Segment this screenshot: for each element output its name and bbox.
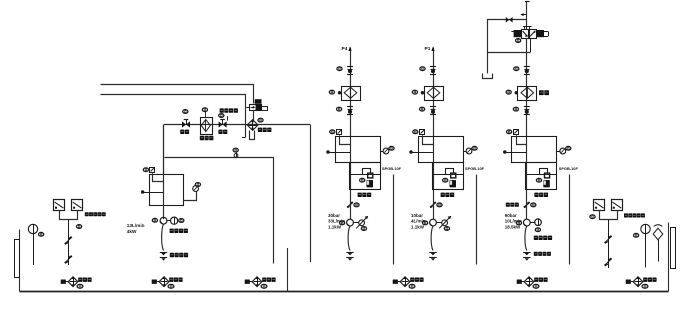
tank right wall: [668, 223, 670, 292]
suction port label box: [393, 280, 398, 284]
pressure gauge: [560, 148, 566, 154]
thermometer right: [641, 224, 650, 233]
cooler: [247, 120, 258, 131]
check valve upper: [430, 66, 436, 68]
plugged test port: [410, 151, 413, 154]
check valve upper tag: [337, 67, 342, 71]
ball valve V1: [182, 121, 186, 127]
wire: [530, 222, 535, 224]
pilot relief valve: [446, 169, 454, 175]
hatched plug port S1: [143, 168, 148, 172]
port number tag: [409, 284, 415, 288]
svg-text:30bar: 30bar: [328, 213, 340, 218]
inlet arrow mark: [521, 14, 527, 16]
orifice tag: [233, 148, 238, 152]
gauge tag: [472, 146, 477, 150]
suction hose text: [170, 253, 174, 257]
port number tag: [261, 284, 267, 288]
circulation pump: [160, 217, 167, 224]
pump unit 1 group: [327, 46, 402, 264]
svg-text:SPGB-10F: SPGB-10F: [559, 166, 579, 171]
svg-text:SPGB-10F: SPGB-10F: [465, 166, 485, 171]
svg-text:1.1kW: 1.1kW: [411, 224, 425, 229]
wire return stub foot: [242, 137, 245, 139]
wire drain to tank: [393, 175, 395, 265]
gauge tag: [566, 146, 571, 150]
pump unit 2 group: [410, 46, 485, 264]
pressure gauge: [466, 148, 472, 154]
port number tag: [533, 284, 539, 288]
level gauge right: [671, 228, 676, 269]
circulation pump group text: [170, 229, 174, 233]
manifold block lower: [433, 163, 464, 190]
motor tag: [361, 227, 366, 231]
level switch right B: [612, 200, 623, 211]
level switch tag right: [590, 215, 595, 219]
port diamond symbol: [68, 277, 78, 287]
wire level switch legs: [60, 211, 78, 220]
svg-text:90bar: 90bar: [505, 213, 517, 218]
relief valve tag: [536, 178, 541, 182]
manifold block upper: [512, 137, 557, 163]
port name text: [643, 278, 647, 282]
wire unit riser: [526, 66, 528, 219]
manifold block B1: [150, 175, 184, 206]
suction hose break: [523, 252, 530, 254]
valve V2 name text: [218, 130, 222, 134]
port name text: [262, 278, 266, 282]
wire main loop line: [164, 124, 310, 126]
check valve lower: [430, 106, 436, 108]
relief name text: [534, 193, 538, 197]
thermometer left tag: [39, 232, 44, 236]
high pressure filter: [342, 87, 361, 101]
svg-text:18.5kW: 18.5kW: [505, 224, 521, 229]
wire valve T-port: [530, 38, 532, 52]
wire: [167, 220, 171, 222]
thermometer left: [28, 224, 37, 233]
level switch right A: [594, 200, 605, 211]
wire lower tee line: [165, 158, 274, 264]
port diamond symbol: [633, 277, 643, 287]
check valve lower tag: [337, 107, 342, 111]
hatched plug port: [330, 130, 335, 134]
wire unit3 top riser: [526, 1, 528, 29]
suction hose break: [429, 252, 436, 254]
svg-text:10bar: 10bar: [411, 213, 423, 218]
probe break mark lower: [65, 256, 72, 263]
hatched plug port: [413, 130, 418, 134]
svg-text:4kW: 4kW: [127, 229, 137, 234]
pressure gauge G1: [193, 186, 199, 192]
manifold block lower: [526, 163, 557, 190]
tank port P4: [393, 277, 424, 288]
check valve lower tag: [420, 107, 425, 111]
svg-text:10L/min: 10L/min: [505, 219, 522, 224]
suction s-curve: [431, 226, 433, 251]
flex coupling tag: [531, 203, 536, 207]
wire: [398, 281, 401, 283]
check valve lower: [347, 106, 353, 108]
manual pump text: [506, 203, 510, 207]
wire: [246, 107, 249, 109]
pump tag left: [423, 221, 428, 225]
cooler name text: [258, 128, 262, 132]
level switch left A: [54, 200, 65, 211]
wire block internal step: [517, 137, 527, 145]
level switch left B: [72, 200, 83, 211]
wire: [436, 222, 441, 224]
port number tag: [168, 284, 174, 288]
filter F1 tag: [202, 108, 207, 112]
svg-text:P4: P4: [342, 46, 348, 52]
level controller text left: [85, 212, 89, 216]
port name text: [534, 278, 538, 282]
manifold block upper: [336, 137, 381, 163]
variable pump group text: [534, 236, 538, 240]
relief pilot wire: [527, 174, 557, 176]
relief valve tag: [443, 178, 448, 182]
check valve lower tag: [513, 107, 518, 111]
high pressure filter: [518, 87, 537, 101]
pump circle: [430, 219, 437, 226]
tank port P3: [245, 277, 276, 288]
check valve upper: [524, 66, 530, 68]
motor tag: [444, 227, 449, 231]
motor tag: [535, 228, 540, 232]
pump tag left: [340, 221, 345, 225]
valve V1 name text: [180, 130, 184, 134]
motor M1 tag: [179, 219, 184, 223]
circulation pump tag left: [152, 218, 157, 222]
valve V1 tag: [183, 110, 188, 114]
wire drain to tank: [476, 175, 478, 265]
valve V2 tag: [219, 114, 224, 118]
pilot relief valve: [540, 169, 548, 175]
port name text: [410, 278, 414, 282]
wire block internal step: [153, 175, 164, 182]
level switch tag left: [77, 225, 82, 229]
relief pilot wire: [433, 174, 463, 176]
solenoid valve SV1: [250, 105, 262, 111]
filter F1 name text: [200, 136, 204, 140]
air breather: [654, 225, 663, 227]
wire loop right drop: [310, 125, 312, 263]
svg-text:13L/min: 13L/min: [127, 223, 145, 228]
filter port dot: [421, 92, 424, 95]
filter tag: [506, 90, 511, 94]
flex coupling: [430, 202, 436, 207]
probe break mark lower right: [605, 259, 612, 266]
cooler drain pocket: [250, 131, 255, 140]
tank left wall: [19, 230, 21, 292]
wire: [250, 281, 253, 283]
cooler tag: [258, 118, 263, 122]
svg-text:P1: P1: [425, 46, 431, 52]
flex coupling: [524, 202, 530, 207]
suction hose break: [346, 252, 353, 254]
wire: [66, 281, 69, 283]
flex coupling tag: [437, 203, 442, 207]
tank symbol: [483, 74, 493, 79]
variable motor: [359, 220, 365, 226]
plugged test port: [141, 191, 144, 194]
directional valve DV1: [522, 30, 530, 39]
relief name text: [358, 193, 362, 197]
hatched plug port: [507, 130, 512, 134]
filter tag: [412, 90, 417, 94]
gauge G1 tag: [195, 183, 200, 187]
wire valve P-port: [526, 38, 528, 66]
wire pilot branch: [488, 20, 531, 53]
filter port dot: [515, 92, 518, 95]
wire: [631, 281, 634, 283]
relief name text: [441, 193, 445, 197]
relief valve tag: [360, 178, 365, 182]
wire drain to tank: [569, 175, 571, 265]
filter name text: [539, 90, 544, 95]
suction s-curve: [162, 224, 164, 250]
plugged test port: [327, 151, 330, 154]
gauge take-off wire: [380, 151, 383, 153]
ball valve V2: [219, 121, 223, 127]
suction port label box: [152, 280, 157, 284]
drive motor: [535, 219, 542, 226]
suction port label box: [245, 280, 250, 284]
suction s-curve: [525, 226, 527, 251]
level controller text right: [624, 213, 628, 217]
suction hose break: [160, 252, 167, 254]
wire unit riser: [433, 66, 435, 219]
wire pump drop line: [163, 125, 165, 220]
wire block internal step: [340, 137, 351, 145]
wire supply line 1: [101, 85, 254, 104]
suction port label box: [626, 280, 631, 284]
wire loop left drop: [163, 125, 165, 175]
pilot relief valve: [363, 169, 371, 175]
outlet arrow: [350, 48, 352, 67]
port diamond symbol: [400, 277, 410, 287]
tank port P1: [61, 277, 92, 288]
pilot check valve: [506, 17, 509, 23]
suction port label box: [517, 280, 522, 284]
drive motor M1: [171, 217, 178, 224]
pump tag left: [516, 221, 521, 225]
wire level probe stem: [68, 220, 70, 265]
svg-text:1.1kW: 1.1kW: [328, 224, 342, 229]
relief pilot wire: [350, 174, 380, 176]
suction hose text: [534, 252, 538, 256]
manifold block upper: [419, 137, 464, 163]
wire unit riser: [350, 66, 352, 219]
port diamond symbol: [524, 277, 534, 287]
wire block internal step: [423, 137, 434, 145]
thermometer right tag: [634, 233, 639, 237]
directional valve tag: [516, 39, 521, 43]
manifold block lower: [350, 163, 381, 190]
servo pump A text: [220, 108, 224, 112]
orifice on tee line: [234, 154, 238, 158]
check valve upper tag: [514, 67, 519, 71]
suction s-curve: [348, 226, 350, 251]
port name text: [169, 278, 173, 282]
probe break mark upper: [65, 237, 72, 244]
filter F1: [201, 118, 213, 135]
check valve upper: [347, 66, 353, 68]
tank port P2: [152, 277, 183, 288]
filter port dot: [338, 92, 341, 95]
pump circle: [347, 219, 354, 226]
pump circle: [523, 219, 530, 226]
gauge tag: [389, 146, 394, 150]
gauge take-off wire: [557, 151, 560, 153]
wire: [522, 281, 525, 283]
wire level probe stem right: [608, 220, 610, 268]
wire supply line 2: [101, 95, 246, 138]
wire level switch legs right: [600, 211, 618, 220]
plugged test port: [504, 151, 507, 154]
wire: [157, 281, 160, 283]
tank port P5: [517, 277, 548, 288]
gauge take-off wire: [184, 192, 197, 201]
tank bottom line: [20, 291, 669, 293]
check valve upper tag: [420, 67, 425, 71]
port diamond symbol: [252, 277, 262, 287]
filter tag: [329, 90, 334, 94]
high pressure filter: [425, 87, 444, 101]
port name text: [78, 278, 82, 282]
suction port label box: [61, 280, 66, 284]
outlet arrow: [433, 48, 435, 67]
svg-text:SPGB-10F: SPGB-10F: [382, 166, 402, 171]
variable motor: [442, 220, 448, 226]
flex coupling: [347, 202, 353, 207]
pressure gauge: [383, 148, 389, 154]
gauge take-off wire: [463, 151, 466, 153]
tank port P6: [626, 277, 657, 288]
flex coupling tag: [354, 203, 359, 207]
level gauge left: [15, 240, 20, 278]
svg-text:33L/min: 33L/min: [328, 219, 345, 224]
wire return drop: [287, 248, 289, 291]
port number tag: [77, 284, 83, 288]
wire: [353, 222, 358, 224]
check valve lower: [524, 106, 530, 108]
port diamond symbol: [159, 277, 169, 287]
svg-text:4L/min: 4L/min: [411, 219, 426, 224]
probe break mark upper right: [605, 236, 612, 243]
port number tag: [642, 284, 648, 288]
pump unit 3 group: [483, 1, 579, 265]
wire drain leg: [487, 52, 489, 74]
